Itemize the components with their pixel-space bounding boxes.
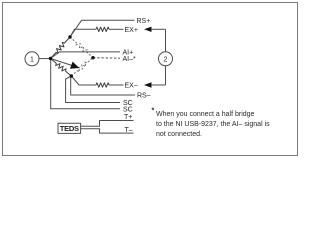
arrowhead into EX+ — [144, 27, 166, 32]
svg-text:When you connect a half bridge: When you connect a half bridge — [156, 111, 255, 118]
wire EX- to label — [109, 84, 124, 86]
junction dot right vertex — [91, 56, 94, 59]
wire RS+ — [70, 20, 135, 37]
svg-text:EX+: EX+ — [125, 27, 138, 34]
gauge arrow from left vertex — [51, 59, 80, 69]
wire EX+ to label — [109, 28, 124, 30]
wire AI+ — [51, 52, 121, 59]
wire TEDS to T- — [81, 129, 134, 133]
svg-text:*: * — [152, 108, 155, 115]
svg-text:T–: T– — [125, 127, 133, 134]
svg-text:AI–*: AI–* — [123, 56, 137, 63]
excitation loop vertical wire — [165, 29, 167, 52]
node 1 circle marker — [25, 52, 39, 66]
svg-text:not connected.: not connected. — [156, 131, 202, 138]
wire RS- — [71, 76, 135, 95]
wire TEDS to T+ — [81, 121, 134, 127]
arrowhead into EX- — [144, 82, 166, 87]
svg-text:SC: SC — [123, 106, 133, 113]
bridge completion resistor lower-right (dashed) — [71, 58, 93, 76]
svg-text:2: 2 — [164, 57, 168, 64]
bridge gauge resistor R upper-left — [51, 37, 71, 59]
svg-text:1: 1 — [30, 57, 34, 64]
wire node1 to bridge left vertex — [39, 58, 51, 60]
junction dot bottom vertex — [70, 74, 73, 77]
svg-text:EX–: EX– — [125, 83, 138, 90]
wire SC upper from bottom vertex — [66, 76, 120, 103]
svg-text:RS–: RS– — [137, 93, 151, 100]
resistor on EX+ lead — [96, 27, 109, 31]
wire EX+ — [70, 29, 96, 37]
junction dot left vertex — [49, 57, 52, 60]
svg-text:TEDS: TEDS — [60, 124, 79, 133]
svg-text:to the NI USB-9237, the AI– si: to the NI USB-9237, the AI– signal is — [156, 121, 270, 128]
node 2 circle marker — [159, 52, 173, 66]
svg-text:RS+: RS+ — [137, 18, 151, 25]
excitation loop vertical wire lower — [165, 66, 167, 85]
junction dot top vertex — [68, 35, 71, 38]
wire AI- (dashed) — [93, 57, 120, 60]
resistor on EX- lead — [96, 83, 109, 87]
wire SC lower from left vertex — [51, 59, 120, 109]
wire EX- from bottom vertex — [71, 76, 96, 85]
svg-text:T+: T+ — [124, 114, 132, 121]
bridge completion resistor upper-right (dashed) — [70, 37, 93, 58]
bridge gauge resistor R lower-left — [51, 59, 72, 77]
TEDS box — [58, 123, 81, 133]
